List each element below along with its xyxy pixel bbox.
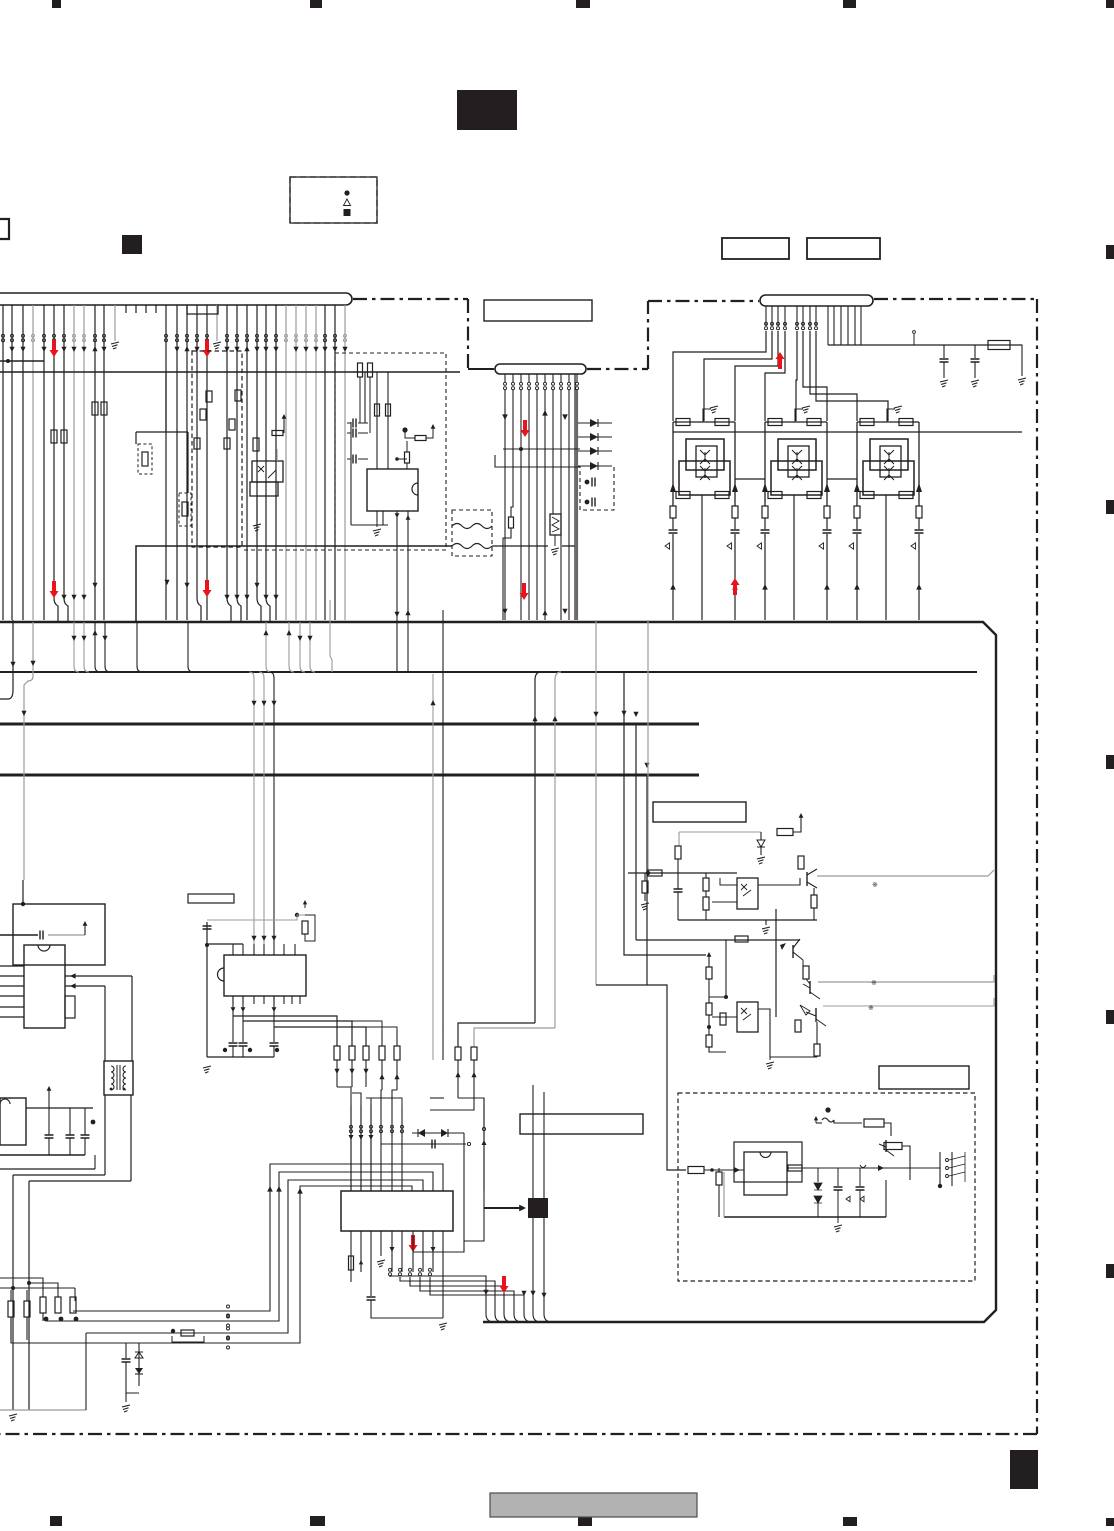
svg-text:※: ※ [872, 882, 878, 889]
svg-text:※: ※ [871, 980, 877, 987]
svg-text:※: ※ [868, 1005, 874, 1012]
